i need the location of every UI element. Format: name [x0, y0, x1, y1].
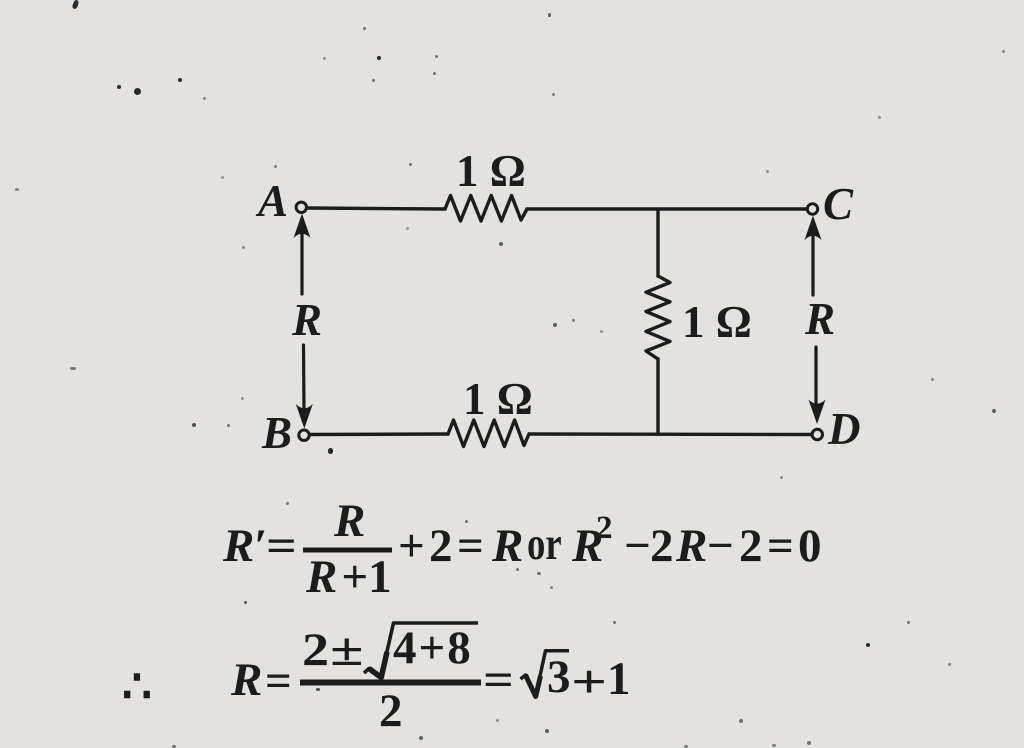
value label: 1 ohm bottom resistor	[463, 377, 533, 422]
wire: middle vertical lower	[656, 359, 659, 433]
equation 2: therefore R = (2 +- sqrt(4+8))/2 = sqrt(3) + 1	[122, 664, 152, 711]
node D	[812, 429, 822, 439]
value label: 1 ohm top resistor	[456, 149, 526, 194]
label: node letter C	[823, 182, 853, 227]
node B	[299, 430, 309, 440]
arrow left lower shaft	[302, 345, 306, 410]
label: node letter D	[828, 407, 861, 452]
label: node letter A	[258, 179, 288, 224]
wire: top resistor to node C	[527, 207, 806, 210]
arrow left upper head pointing up to A	[294, 214, 311, 239]
resistor top 1 ohm zigzag	[445, 196, 527, 222]
arrow left upper shaft	[300, 232, 303, 294]
node A	[296, 202, 306, 212]
fraction bar of eq line 1	[303, 548, 392, 553]
scan speckles	[72, 0, 80, 10]
label: node letter B	[262, 411, 292, 456]
arrow right lower head pointing down to D	[809, 400, 826, 425]
radical sign over 4+8 in eq line 2	[364, 623, 478, 678]
arrow right upper head pointing up to C	[805, 216, 822, 241]
arrow left lower head pointing down to B	[296, 404, 313, 429]
fraction bar of eq line 2	[300, 680, 481, 686]
wire: A to top resistor	[308, 208, 446, 209]
wire: B to bottom resistor	[310, 432, 448, 436]
value label: 1 ohm middle resistor	[682, 300, 752, 345]
equation 1: R' = R/(R+1) + 2 = R or R^2 - 2R - 2 = 0	[223, 523, 268, 570]
resistor bottom 1 ohm zigzag	[448, 420, 529, 447]
arrow right lower shaft	[814, 347, 817, 406]
label: R left equivalent resistance	[292, 298, 322, 343]
node C	[807, 204, 817, 214]
label: R right equivalent resistance	[805, 297, 835, 342]
resistor middle 1 ohm vertical zigzag	[646, 276, 670, 359]
wire: bottom resistor to node D	[529, 432, 811, 436]
arrow right upper shaft	[811, 234, 814, 295]
wire: middle vertical upper	[656, 210, 659, 277]
radical sign over 3 in eq line 2	[521, 651, 570, 697]
